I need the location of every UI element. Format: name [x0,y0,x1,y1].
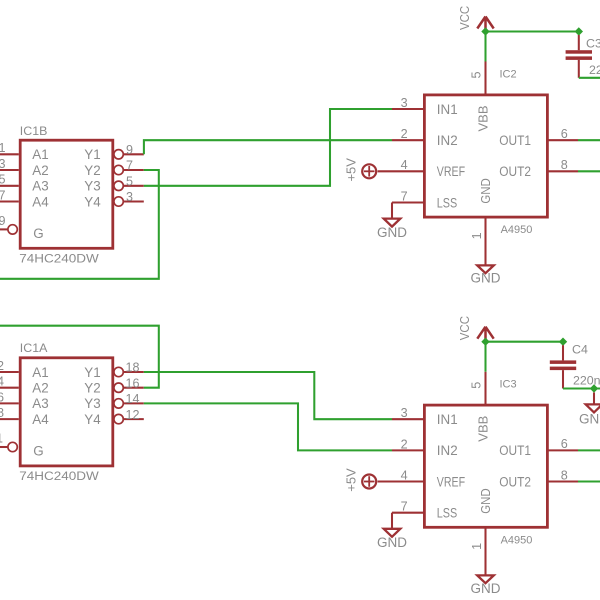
svg-text:1: 1 [470,543,484,550]
svg-text:IC1A: IC1A [20,341,48,355]
svg-text:3: 3 [401,96,408,110]
ground GND at IC2 LSS [377,219,407,240]
svg-text:GND: GND [471,271,501,286]
IC2 pin 4 VREF [378,158,465,179]
svg-text:G: G [33,226,43,241]
svg-text:220n: 220n [589,63,600,77]
junction at C4 bottom GND [590,384,598,392]
svg-text:OUT1: OUT1 [499,133,531,148]
svg-text:3: 3 [401,406,408,420]
IC2 pin 1 GND [470,178,493,265]
IC1B pin 13 A2 [0,157,49,178]
wire VCC to IC3 VBB [484,341,486,372]
IC1B pin 19 G [0,214,44,241]
svg-text:VCC: VCC [457,6,472,30]
svg-text:IC1B: IC1B [20,124,48,138]
supply +5V at IC2 VREF [343,158,376,182]
driver IC3 body [424,405,547,527]
svg-text:Y2: Y2 [84,381,100,396]
ground GND at IC3 LSS [377,529,407,550]
wire VCC to IC2 VBB [484,31,486,62]
svg-text:A2: A2 [32,381,48,396]
supply VCC bottom [457,316,494,341]
svg-text:4: 4 [0,375,4,389]
IC2 pin 8 OUT2 [499,158,578,179]
svg-text:Y1: Y1 [84,365,100,380]
svg-text:VBB: VBB [476,105,491,131]
junction at C3 top [575,27,583,35]
wire IC1A Y1 to IC3 IN1 [144,372,392,419]
IC3 pin 5 VBB [470,372,491,442]
IC1A pin 8 A4 [0,406,49,427]
IC1A pin 2 A1 [0,359,49,380]
IC1A pin 1 G [0,431,44,458]
svg-text:VCC: VCC [457,316,472,340]
IC1B pin 15 A3 [0,173,49,194]
svg-text:LSS: LSS [437,506,457,521]
svg-text:IN2: IN2 [437,133,458,148]
svg-text:Y4: Y4 [84,412,101,427]
svg-text:6: 6 [0,390,4,404]
svg-text:13: 13 [0,157,6,171]
svg-text:6: 6 [561,437,568,451]
IC1B label [20,124,48,138]
svg-text:A4: A4 [32,194,49,209]
svg-text:IC3: IC3 [500,379,517,391]
capacitor C4 [550,342,600,388]
IC1A pin 14 Y3 [84,392,144,411]
IC2 pin 7 LSS [392,189,457,218]
IC3 pin 1 GND [470,488,493,574]
IC3 pin 4 VREF [378,468,465,489]
svg-text:A2: A2 [32,163,48,178]
IC1B pin 11 A1 [0,141,49,162]
svg-text:VREF: VREF [437,164,465,179]
svg-text:IN1: IN1 [437,412,458,427]
svg-text:A4950: A4950 [501,224,533,236]
IC3 pin 2 IN2 [392,437,458,458]
IC1B pin 3 Y4 [84,190,144,209]
IC2 value A4950 [501,224,533,236]
svg-text:74HC240DW: 74HC240DW [19,252,99,266]
svg-text:C3: C3 [586,37,600,51]
wire VCC to C4 [486,341,564,343]
svg-text:1: 1 [0,431,3,445]
svg-text:6: 6 [561,127,568,141]
svg-text:IC2: IC2 [500,68,517,80]
svg-text:OUT2: OUT2 [499,164,531,179]
IC3 pin 7 LSS [392,500,457,529]
svg-text:8: 8 [561,468,568,482]
svg-text:74HC240DW: 74HC240DW [19,469,99,483]
IC2 label [500,68,517,80]
svg-text:17: 17 [0,188,6,202]
buffer IC1B body [20,140,113,248]
svg-text:4: 4 [401,158,408,172]
capacitor C3 [566,35,600,78]
svg-text:2: 2 [401,127,408,141]
IC3 pin 3 IN1 [392,406,458,427]
svg-text:+5V: +5V [343,468,358,492]
svg-text:7: 7 [401,500,408,514]
svg-text:GND: GND [377,535,407,550]
wire VCC to C3 [486,30,579,32]
wire IC1A Y2 to off-canvas left [0,326,159,388]
IC1A label [20,341,48,355]
svg-text:5: 5 [470,71,484,78]
svg-text:+5V: +5V [343,158,358,182]
IC1A pin 4 A2 [0,375,49,396]
svg-text:VREF: VREF [437,474,465,489]
svg-text:A3: A3 [32,396,48,411]
IC3 label [500,379,517,391]
svg-text:18: 18 [126,361,140,375]
svg-text:8: 8 [561,158,568,172]
svg-text:GND: GND [478,488,493,513]
supply +5V at IC3 VREF [343,468,376,492]
IC2 pin 5 VBB [470,62,491,132]
junction at C4 top [559,338,567,346]
junction at VCC top [481,27,489,35]
svg-text:A4: A4 [32,412,49,427]
svg-text:GND: GND [478,178,493,203]
IC1A pin 18 Y1 [84,361,144,380]
IC1B value 74HC240DW [19,252,99,266]
svg-text:2: 2 [401,437,408,451]
svg-text:A1: A1 [32,147,48,162]
svg-text:4: 4 [401,468,408,482]
svg-text:7: 7 [126,159,133,173]
supply VCC top [457,6,494,31]
IC1A value 74HC240DW [19,469,99,483]
IC1A pin 6 A3 [0,390,49,411]
IC1B pin 9 Y1 [84,143,144,162]
wire IC3 OUT2 right [578,480,600,482]
ground GND below C4 [579,393,600,427]
IC2 pin 2 IN2 [392,127,458,148]
svg-text:5: 5 [126,175,133,189]
svg-text:Y2: Y2 [84,163,100,178]
svg-text:3: 3 [126,190,133,204]
svg-text:Y1: Y1 [84,147,100,162]
IC3 value A4950 [501,534,533,546]
svg-text:12: 12 [126,408,140,422]
IC1B pin 17 A4 [0,188,49,209]
wire IC3 OUT1 right [578,449,600,451]
svg-text:OUT2: OUT2 [499,474,531,489]
IC2 pin 3 IN1 [392,96,458,117]
svg-text:C4: C4 [572,342,588,356]
svg-text:9: 9 [126,143,133,157]
svg-text:GND: GND [579,411,600,426]
IC3 pin 6 OUT1 [499,437,578,458]
svg-text:Y3: Y3 [84,179,100,194]
IC1B pin 7 Y2 [84,159,144,178]
svg-text:VBB: VBB [476,416,491,442]
svg-text:2: 2 [0,359,4,373]
svg-text:7: 7 [401,189,408,203]
svg-text:GND: GND [471,581,501,596]
svg-text:A3: A3 [32,179,48,194]
svg-text:OUT1: OUT1 [499,443,531,458]
IC1B pin 5 Y3 [84,175,144,194]
IC3 pin 8 OUT2 [499,468,578,489]
wire IC1B Y2 to off-canvas left [0,170,159,279]
ground GND below IC2 pin1 [471,265,501,285]
wire C4 to GND junction [563,387,600,389]
wire C3 to off-canvas right [579,77,600,79]
ground GND below IC3 pin1 [471,575,501,595]
IC1A pin 16 Y2 [84,376,144,395]
svg-text:1: 1 [470,232,484,239]
svg-text:11: 11 [0,141,6,155]
svg-text:Y4: Y4 [84,194,101,209]
svg-text:15: 15 [0,173,6,187]
wire IC1B Y3 to IC2 IN1 [144,109,392,186]
svg-text:8: 8 [0,406,4,420]
wire IC1B Y1 to IC2 IN2 [144,140,392,154]
IC1A pin 12 Y4 [84,408,144,427]
svg-text:LSS: LSS [437,195,457,210]
svg-text:14: 14 [126,392,140,406]
wire IC2 OUT1 right [578,139,600,141]
svg-text:16: 16 [126,376,140,390]
svg-text:A4950: A4950 [501,534,533,546]
wire IC2 OUT2 right [578,170,600,172]
svg-text:IN2: IN2 [437,443,458,458]
svg-text:G: G [33,444,43,459]
svg-text:5: 5 [470,382,484,389]
svg-text:IN1: IN1 [437,102,458,117]
driver IC2 body [424,95,547,217]
svg-text:19: 19 [0,214,6,228]
junction at VCC bottom [481,338,489,346]
buffer IC1A body [20,358,113,466]
svg-text:GND: GND [377,225,407,240]
svg-text:Y3: Y3 [84,396,100,411]
svg-text:220n: 220n [573,373,600,387]
wire IC1A Y3 to IC3 IN2 [144,403,392,450]
IC2 pin 6 OUT1 [499,127,578,148]
svg-text:A1: A1 [32,365,48,380]
